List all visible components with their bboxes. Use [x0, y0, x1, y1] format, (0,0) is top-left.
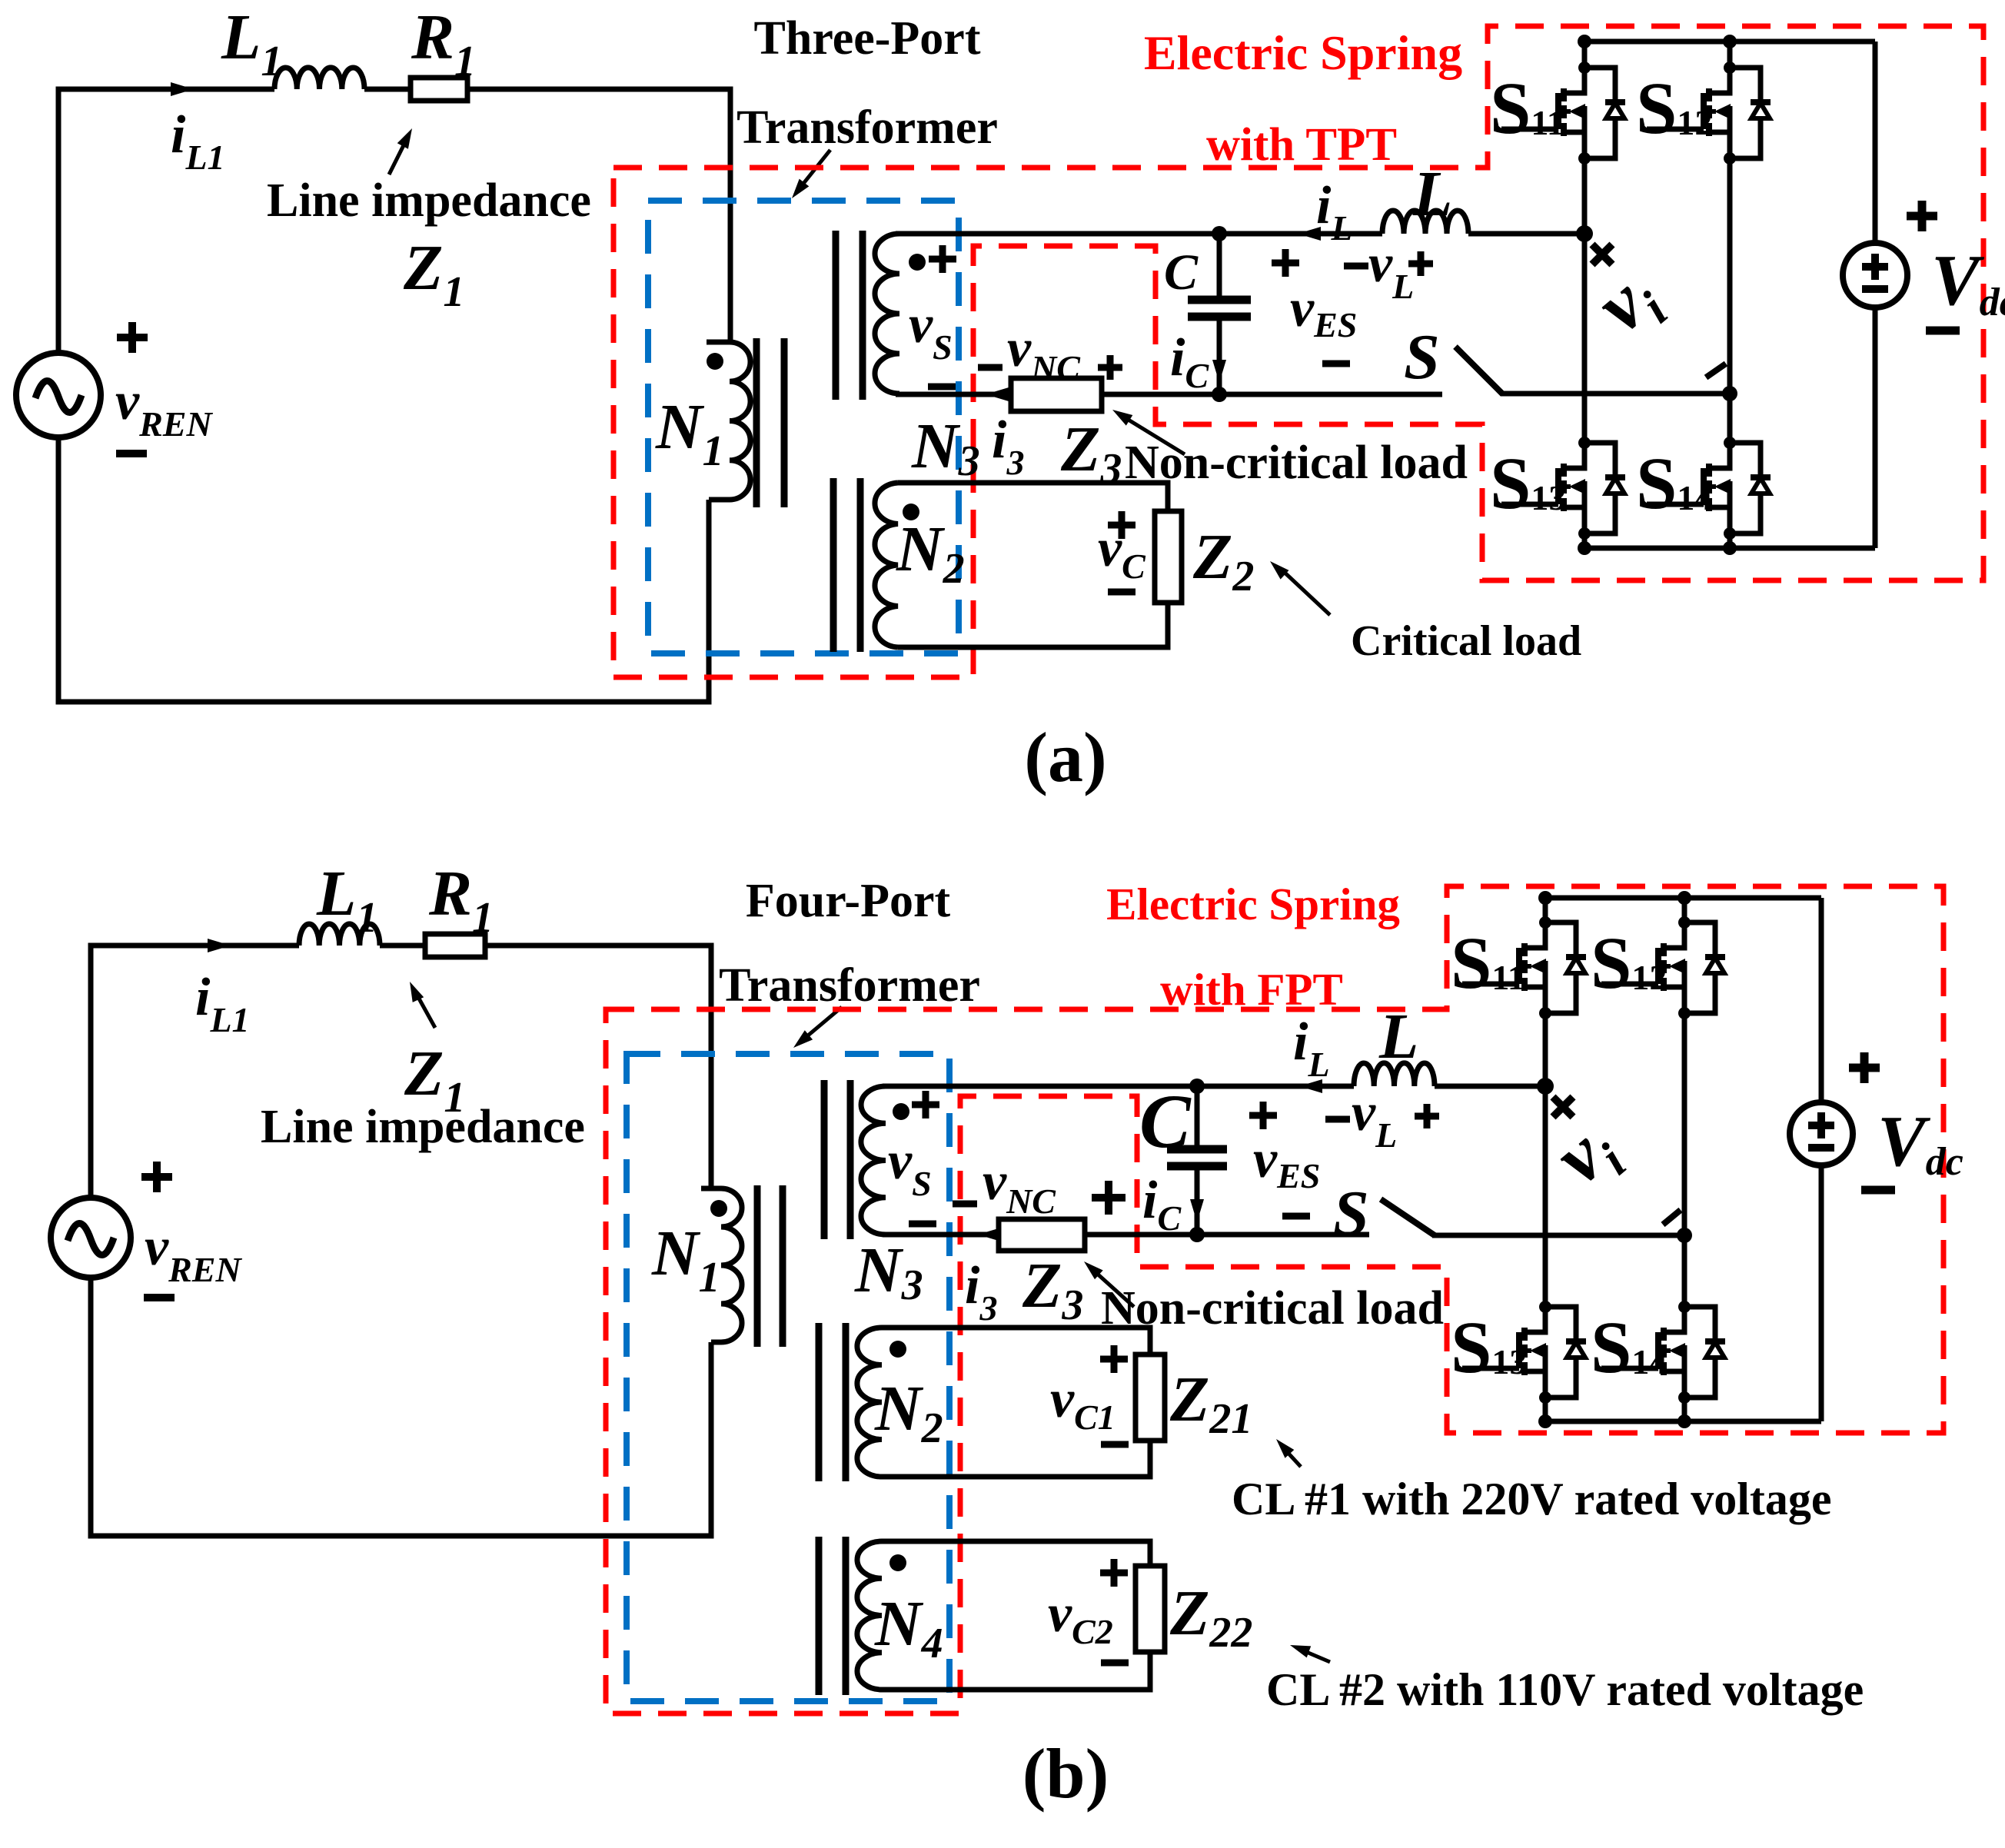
- label Transformer (a) with arrow to transformer box: [736, 101, 998, 198]
- blue dashed box: Three-Port Transformer (a): [648, 201, 959, 653]
- switch contact tick (b): [1663, 1210, 1681, 1225]
- wire: v_S top to capacitor node and inverter (b): [883, 1084, 1545, 1089]
- polarity dot N2 (a): [903, 504, 919, 520]
- wire: top rail to Vdc source (b): [1819, 898, 1824, 1102]
- transformer core bars N3 (a): [836, 231, 863, 400]
- wire: source to top-left corner and top wire to L1 (a): [58, 89, 274, 353]
- secondary winding N3 / v_S (a): [875, 234, 899, 394]
- polarity dot N3 (b): [893, 1103, 909, 1120]
- dc source Vdc (b): [1790, 1102, 1853, 1165]
- polarity dot N3 (a): [909, 254, 926, 271]
- wire: Z3 to switch S (a): [1102, 392, 1442, 397]
- transformer primary winding N1 (b): [701, 1188, 742, 1342]
- svg-text:(a): (a): [1024, 718, 1106, 796]
- svg-text:Electric Spring: Electric Spring: [1106, 879, 1400, 929]
- svg-text:C: C: [1139, 1079, 1192, 1164]
- label v_C1 with polarity (b): [1050, 1345, 1129, 1444]
- inductor L (b): [1354, 1001, 1435, 1086]
- capacitor C (a): [1164, 234, 1251, 394]
- wire: S13 source to bottom rail (b): [1543, 1398, 1548, 1421]
- svg-text:Transformer: Transformer: [736, 101, 998, 154]
- wire: S13 source to bottom rail (a): [1582, 533, 1588, 548]
- junction dots on top rail (b): [1538, 891, 1691, 905]
- current arrow i_C (a): [1170, 328, 1226, 395]
- current arrow i_L1 (a): [171, 82, 225, 177]
- MOSFET S11 (a): [1490, 61, 1625, 165]
- polarity dot N1 (a): [707, 353, 723, 370]
- svg-text:Critical load: Critical load: [1351, 617, 1581, 665]
- svg-text:Line impedance: Line impedance: [261, 1101, 585, 1153]
- wire: S14 source to bottom rail (a): [1727, 533, 1733, 548]
- inverter left leg upper (a): [1582, 42, 1588, 68]
- wire: L1 to R1 (a): [364, 87, 411, 92]
- transformer core bars N3 (b): [824, 1080, 850, 1239]
- MOSFET S13 (b): [1451, 1301, 1586, 1404]
- junction dots on bottom rail (b): [1538, 1414, 1691, 1428]
- svg-text:with FPT: with FPT: [1160, 964, 1343, 1015]
- secondary winding N3 / v_S (b): [861, 1086, 886, 1235]
- transformer primary winding N1 (a): [707, 342, 750, 500]
- wire: source to top wire to L1 (b): [91, 946, 299, 1198]
- resistor Z21 critical load 1 (b): [1136, 1354, 1165, 1441]
- label v_REN (a) with polarity: [115, 322, 213, 454]
- current arrow i_L (b): [1293, 1012, 1330, 1093]
- svg-text:Transformer: Transformer: [719, 959, 980, 1012]
- red dashed boundary: Electric Spring with FPT region (b): [606, 886, 1943, 1713]
- MOSFET S14 (a): [1636, 437, 1771, 540]
- svg-text:L: L: [1412, 158, 1452, 230]
- resistor Z3 non-critical load (a): [1011, 378, 1102, 411]
- junction node switch to right leg (b): [1677, 1228, 1692, 1243]
- resistor R1 (a): [411, 2, 476, 101]
- inverter right leg upper (a): [1727, 42, 1733, 68]
- current arrow i_L (a): [1298, 176, 1353, 248]
- MOSFET S13 (a): [1490, 437, 1625, 540]
- wire: switch to inverter midpoint (b): [1432, 1233, 1684, 1238]
- current arrow i_C (b): [1142, 1171, 1204, 1238]
- inverter left leg upper (b): [1543, 898, 1548, 922]
- inverter top rail (b): [1545, 896, 1821, 901]
- transformer core bars N1 (a): [756, 338, 784, 507]
- label Z1 line impedance with arrow (a): [267, 128, 591, 316]
- MOSFET S14 (b): [1591, 1301, 1725, 1404]
- dc source Vdc (a): [1843, 243, 1907, 307]
- secondary winding N2 (a): [875, 483, 898, 647]
- junction dots on top rail (a): [1578, 35, 1737, 48]
- current arrow i_L1 (b): [195, 939, 250, 1039]
- wire: L1 to R1 (b): [380, 943, 425, 949]
- polarity dot N4 (b): [889, 1554, 906, 1571]
- label v_L with polarity (a): [1344, 234, 1433, 306]
- blue dashed box: Four-Port Transformer (b): [627, 1054, 949, 1701]
- label Z1 line impedance with arrow (b): [261, 982, 585, 1153]
- inverter bottom rail (a): [1584, 546, 1875, 551]
- transformer core bars N2 (a): [833, 478, 860, 652]
- wire: R1 to transformer primary N1 top (a): [467, 89, 730, 342]
- junction node at capacitor bottom (a): [1212, 387, 1227, 402]
- label CL #1 with arrow (b): [1232, 1439, 1832, 1524]
- label v_NC with polarity (b): [953, 1152, 1126, 1221]
- MOSFET S11 (b): [1451, 916, 1586, 1019]
- junction node switch to right leg (a): [1722, 386, 1737, 401]
- label Vdc with polarity (a): [1907, 201, 2005, 331]
- label v_C with polarity (a): [1098, 511, 1146, 592]
- wire: Vdc to bottom rail (a): [1873, 307, 1878, 548]
- switch contact tick (a): [1706, 364, 1726, 377]
- ac source v_REN (a): [16, 353, 101, 437]
- svg-text:with TPT: with TPT: [1206, 119, 1397, 171]
- svg-text:S: S: [1404, 321, 1440, 393]
- wire: v_S bottom to non-critical load Z3 (b): [883, 1232, 999, 1238]
- svg-text:Three-Port: Three-Port: [754, 12, 981, 65]
- polarity dot N2 (b): [889, 1341, 906, 1358]
- svg-text:Four-Port: Four-Port: [746, 875, 951, 927]
- wire: R1 to transformer primary N1 top (b): [485, 946, 711, 1188]
- red dashed boundary: Electric Spring with TPT region (a): [613, 26, 1983, 677]
- label Non-critical load with arrow (a): [1112, 410, 1468, 489]
- resistor R1 (b): [425, 858, 494, 957]
- svg-text:Line impedance: Line impedance: [267, 174, 591, 227]
- polarity dot N1 (b): [710, 1200, 727, 1217]
- secondary winding N2 (b): [857, 1328, 882, 1477]
- wire: Z3 to switch S (b): [1085, 1232, 1369, 1238]
- wire: N2 loop to critical load Z2 (a): [898, 483, 1168, 647]
- MOSFET S12 (b): [1591, 916, 1725, 1019]
- wire: v_S bottom to non-critical load Z3 (a): [896, 392, 1011, 397]
- junction node at capacitor top (a): [1212, 226, 1227, 241]
- label v_ES with polarity (a): [1272, 249, 1357, 364]
- svg-text:(b): (b): [1022, 1734, 1109, 1813]
- svg-text:CL #1 with 220V rated voltage: CL #1 with 220V rated voltage: [1232, 1474, 1832, 1524]
- label v_L with polarity (b): [1325, 1083, 1439, 1155]
- wire: S12 source to switch node (b): [1682, 1013, 1687, 1307]
- svg-text:C: C: [1164, 244, 1199, 301]
- current arrow i_3 (a): [986, 387, 1009, 401]
- label Non-critical load with arrow (b): [1084, 1261, 1444, 1334]
- label Vdc with polarity (b): [1849, 1052, 1963, 1190]
- secondary winding N4 (b): [857, 1541, 882, 1690]
- switch S (b): [1333, 1178, 1435, 1249]
- svg-text:L: L: [1378, 1001, 1418, 1072]
- svg-text:CL #2 with 110V rated voltage: CL #2 with 110V rated voltage: [1266, 1664, 1864, 1715]
- transformer core bars N2 (b): [819, 1323, 846, 1481]
- wire: source bottom, bottom wire, up to N1 bottom (a): [58, 437, 709, 702]
- wire: S11 source to bridge midpoint x (b): [1543, 1013, 1548, 1307]
- wire: Vdc to bottom rail (b): [1819, 1165, 1824, 1421]
- node x inverter output (a): [1576, 225, 1612, 264]
- switch S (a): [1404, 321, 1503, 394]
- junction dots on bottom rail (a): [1578, 541, 1737, 555]
- label v_S with polarity (b): [888, 1091, 939, 1224]
- node x inverter output (b): [1537, 1078, 1573, 1117]
- wire: N4 loop to critical load Z22 (b): [882, 1541, 1150, 1690]
- wire: top rail to Vdc source (a): [1873, 42, 1878, 243]
- junction node at capacitor bottom (b): [1189, 1227, 1205, 1242]
- inductor L1 (b): [299, 858, 380, 946]
- label v_S with polarity (a): [909, 245, 956, 387]
- label v_REN (b) with polarity: [141, 1162, 242, 1298]
- label Critical load with arrow (a): [1270, 561, 1581, 665]
- label v_ES with polarity (b): [1249, 1102, 1320, 1216]
- svg-text:S: S: [1333, 1178, 1369, 1249]
- ac source v_REN (b): [51, 1198, 131, 1278]
- transformer core bars N4 (b): [819, 1537, 846, 1695]
- wire: switch to inverter midpoint (a): [1501, 391, 1730, 397]
- junction node at capacitor top (b): [1189, 1079, 1205, 1094]
- svg-text:Non-critical load: Non-critical load: [1125, 437, 1468, 489]
- inverter bottom rail (b): [1545, 1419, 1821, 1424]
- resistor Z3 non-critical load (b): [999, 1219, 1085, 1251]
- resistor Z22 critical load 2 (b): [1136, 1566, 1165, 1652]
- inverter top rail (a): [1584, 39, 1875, 45]
- wire: S11 source to bridge midpoint x (a): [1582, 158, 1588, 443]
- label v_NC with polarity (a): [978, 319, 1122, 387]
- wire: S12 source to switch node (a): [1727, 158, 1733, 443]
- wire: source bottom, bottom wire, up to N1 bottom (b): [91, 1278, 711, 1536]
- transformer core bars N1 (b): [757, 1185, 783, 1347]
- inductor L (a): [1382, 158, 1468, 234]
- current arrow i_3 (b): [978, 1228, 1001, 1241]
- wire: N2 loop to critical load Z21 (b): [882, 1328, 1150, 1477]
- label Transformer (b) with arrow to transformer box: [719, 959, 980, 1048]
- wire: S14 source to bottom rail (b): [1682, 1398, 1687, 1421]
- resistor Z2 critical load (a): [1155, 511, 1182, 603]
- inverter right leg upper (b): [1682, 898, 1687, 922]
- capacitor C (b): [1139, 1079, 1227, 1235]
- svg-text:Electric Spring: Electric Spring: [1144, 25, 1462, 80]
- wire: v_S top to capacitor node and inverter (a): [896, 231, 1584, 237]
- inductor L1 (a): [221, 2, 364, 89]
- label v_C2 with polarity (b): [1048, 1559, 1129, 1663]
- label CL #2 with arrow (b): [1266, 1645, 1864, 1715]
- MOSFET S12 (a): [1636, 61, 1771, 165]
